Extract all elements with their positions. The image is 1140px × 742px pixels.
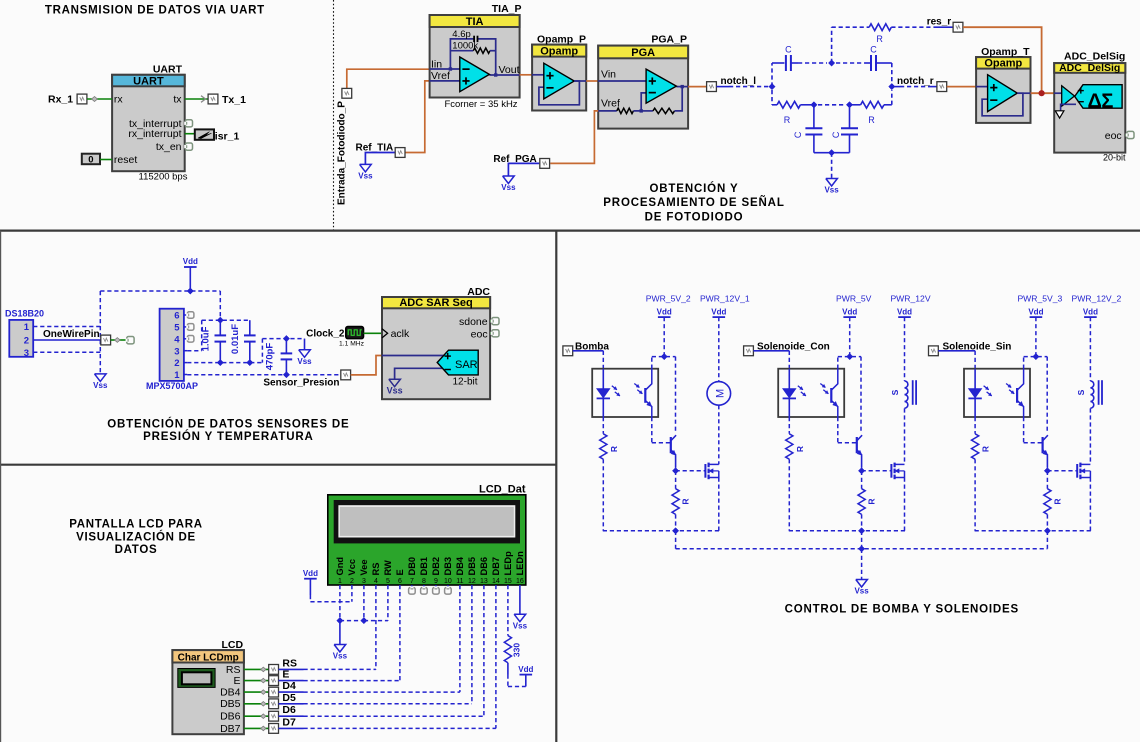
svg-text:rx_interrupt: rx_interrupt — [128, 128, 181, 140]
svg-text:Opamp: Opamp — [540, 45, 578, 57]
svg-text:9: 9 — [434, 578, 438, 585]
svg-text:ADC_DelSig: ADC_DelSig — [1064, 51, 1125, 63]
svg-text:DB7: DB7 — [491, 557, 501, 576]
svg-text:R: R — [981, 446, 991, 452]
svg-text:14: 14 — [492, 578, 500, 585]
svg-text:DB4: DB4 — [220, 687, 241, 699]
svg-text:PGA: PGA — [631, 47, 655, 59]
svg-text:13: 13 — [480, 578, 488, 585]
svg-text:Opamp_T: Opamp_T — [981, 46, 1030, 58]
svg-text:C: C — [793, 131, 803, 138]
svg-text:E: E — [282, 669, 289, 681]
svg-text:PRESIÓN Y TEMPERATURA: PRESIÓN Y TEMPERATURA — [143, 430, 314, 443]
svg-text:16: 16 — [516, 578, 524, 585]
svg-text:ADC SAR Seq: ADC SAR Seq — [399, 297, 472, 309]
svg-text:R: R — [876, 34, 883, 44]
svg-text:Vdd: Vdd — [1083, 307, 1098, 316]
svg-text:Sensor_Presion: Sensor_Presion — [263, 378, 339, 389]
svg-text:DB0: DB0 — [407, 557, 417, 576]
svg-text:3: 3 — [24, 348, 29, 359]
svg-text:2: 2 — [350, 578, 354, 585]
svg-text:PWR_5V: PWR_5V — [836, 294, 872, 304]
svg-text:R: R — [867, 498, 877, 504]
svg-text:5: 5 — [174, 323, 180, 334]
svg-text:4: 4 — [174, 334, 180, 345]
svg-text:R: R — [681, 498, 691, 504]
svg-text:UART: UART — [133, 76, 164, 88]
svg-text:Vss: Vss — [387, 385, 403, 395]
svg-text:3: 3 — [362, 578, 366, 585]
svg-text:E: E — [233, 675, 240, 687]
svg-text:Vss: Vss — [358, 172, 373, 181]
svg-text:SAR: SAR — [455, 359, 478, 371]
svg-text:D5: D5 — [282, 692, 296, 704]
svg-text:Vss: Vss — [513, 621, 528, 630]
svg-text:Vee: Vee — [359, 559, 369, 575]
svg-text:0.01uF: 0.01uF — [230, 324, 241, 354]
svg-text:Fcorner = 35 kHz: Fcorner = 35 kHz — [444, 99, 517, 110]
svg-text:Char LCDmp: Char LCDmp — [178, 652, 239, 663]
svg-text:isr_1: isr_1 — [215, 130, 240, 142]
svg-text:Clock_2: Clock_2 — [306, 329, 345, 340]
svg-text:Vdd: Vdd — [711, 307, 726, 316]
svg-text:1.1 MHz: 1.1 MHz — [339, 341, 365, 348]
svg-text:D4: D4 — [282, 680, 296, 692]
svg-text:Tx_1: Tx_1 — [222, 94, 246, 106]
svg-text:1: 1 — [174, 370, 180, 381]
svg-text:Opamp_P: Opamp_P — [537, 33, 586, 45]
svg-text:RS: RS — [371, 563, 381, 576]
svg-text:sdone: sdone — [459, 316, 488, 328]
svg-text:1000k: 1000k — [452, 41, 478, 52]
svg-text:S: S — [890, 389, 900, 395]
svg-text:res_r: res_r — [927, 16, 952, 27]
svg-text:330: 330 — [512, 643, 522, 657]
svg-text:Vdd: Vdd — [897, 307, 912, 316]
svg-text:ADC_DelSig: ADC_DelSig — [1059, 62, 1120, 74]
svg-text:D6: D6 — [282, 704, 296, 716]
svg-text:Vcc: Vcc — [347, 559, 357, 576]
svg-text:2: 2 — [24, 336, 29, 347]
svg-text:DATOS: DATOS — [115, 544, 158, 556]
svg-text:R: R — [795, 446, 805, 452]
svg-text:R: R — [868, 115, 875, 125]
svg-text:Vdd: Vdd — [183, 257, 198, 266]
svg-text:R: R — [1052, 498, 1062, 504]
svg-text:Vref: Vref — [431, 70, 450, 82]
svg-text:TIA_P: TIA_P — [492, 3, 522, 15]
svg-text:Vdd: Vdd — [518, 665, 533, 674]
svg-text:PGA_P: PGA_P — [651, 33, 687, 45]
svg-text:C: C — [870, 45, 877, 55]
svg-text:LEDn: LEDn — [515, 551, 525, 576]
svg-text:Opamp: Opamp — [984, 58, 1022, 70]
svg-text:PWR_5V_2: PWR_5V_2 — [646, 294, 691, 304]
svg-text:PWR_12V_2: PWR_12V_2 — [1072, 294, 1122, 304]
svg-text:CONTROL DE BOMBA Y SOLENOIDES: CONTROL DE BOMBA Y SOLENOIDES — [785, 603, 1019, 615]
svg-text:rx: rx — [114, 94, 123, 106]
svg-text:OBTENCIÓN DE DATOS SENSORES DE: OBTENCIÓN DE DATOS SENSORES DE — [107, 418, 349, 431]
svg-text:PROCESAMIENTO DE SEÑAL: PROCESAMIENTO DE SEÑAL — [603, 196, 784, 209]
svg-text:R: R — [609, 446, 619, 452]
svg-text:VISUALIZACIÓN DE: VISUALIZACIÓN DE — [76, 530, 196, 543]
svg-text:DB4: DB4 — [455, 556, 465, 575]
svg-text:TIA: TIA — [466, 16, 484, 28]
svg-text:7: 7 — [410, 578, 414, 585]
svg-text:notch_r: notch_r — [897, 76, 934, 87]
svg-text:R: R — [784, 115, 791, 125]
svg-text:0: 0 — [88, 154, 93, 165]
svg-text:OneWirePin: OneWirePin — [43, 329, 100, 340]
svg-text:S: S — [1076, 389, 1086, 395]
svg-text:ΔΣ: ΔΣ — [1088, 91, 1114, 113]
svg-text:LEDp: LEDp — [503, 551, 513, 576]
svg-text:DB7: DB7 — [220, 723, 241, 735]
svg-text:ADC: ADC — [467, 286, 490, 298]
svg-text:DB1: DB1 — [419, 557, 429, 576]
svg-text:C: C — [831, 131, 841, 138]
svg-text:20-bit: 20-bit — [1103, 152, 1126, 162]
svg-text:Rx_1: Rx_1 — [48, 93, 73, 105]
svg-text:1: 1 — [24, 322, 30, 333]
svg-text:notch_l: notch_l — [721, 76, 757, 87]
svg-text:reset: reset — [114, 154, 137, 166]
svg-text:OBTENCIÓN Y: OBTENCIÓN Y — [649, 182, 738, 195]
svg-text:11: 11 — [456, 578, 463, 585]
svg-text:1: 1 — [338, 578, 342, 585]
svg-text:DB5: DB5 — [467, 557, 477, 576]
svg-text:UART: UART — [153, 64, 183, 76]
svg-text:Vref: Vref — [601, 98, 620, 110]
svg-text:115200 bps: 115200 bps — [139, 171, 188, 182]
svg-text:MPX5700AP: MPX5700AP — [146, 381, 198, 391]
svg-text:DB6: DB6 — [220, 711, 241, 723]
svg-text:Vss: Vss — [854, 587, 869, 596]
svg-text:Vdd: Vdd — [303, 569, 318, 578]
svg-text:DS18B20: DS18B20 — [5, 308, 44, 318]
svg-text:8: 8 — [422, 578, 426, 585]
svg-text:Vss: Vss — [824, 186, 839, 195]
svg-text:eoc: eoc — [471, 329, 488, 341]
svg-text:PWR_5V_3: PWR_5V_3 — [1017, 294, 1062, 304]
svg-text:Vdd: Vdd — [657, 307, 672, 316]
svg-text:RS: RS — [226, 664, 241, 676]
svg-text:PWR_12V: PWR_12V — [890, 294, 930, 304]
svg-text:E: E — [395, 569, 405, 575]
svg-text:RS: RS — [282, 657, 297, 669]
svg-text:4: 4 — [374, 578, 378, 585]
svg-text:Vss: Vss — [501, 183, 516, 192]
svg-text:5: 5 — [386, 578, 390, 585]
svg-text:tx: tx — [173, 94, 182, 106]
svg-text:D7: D7 — [282, 716, 296, 728]
svg-text:Gnd: Gnd — [335, 557, 345, 576]
svg-text:12: 12 — [468, 578, 476, 585]
svg-text:C: C — [785, 45, 792, 55]
svg-text:Vss: Vss — [297, 357, 312, 366]
svg-text:Vss: Vss — [93, 381, 108, 390]
svg-text:Vdd: Vdd — [842, 307, 857, 316]
svg-text:4.6p: 4.6p — [452, 29, 471, 40]
svg-text:Vss: Vss — [333, 652, 348, 661]
svg-text:tx_en: tx_en — [156, 141, 182, 153]
svg-text:TRANSMISION DE DATOS VIA UART: TRANSMISION DE DATOS VIA UART — [45, 5, 265, 17]
svg-text:6: 6 — [174, 311, 179, 322]
svg-text:Vdd: Vdd — [1028, 307, 1043, 316]
svg-text:RW: RW — [383, 560, 393, 576]
svg-text:DE FOTODIODO: DE FOTODIODO — [645, 211, 744, 223]
svg-text:10: 10 — [444, 578, 452, 585]
svg-text:eoc: eoc — [1105, 130, 1122, 142]
svg-text:DB5: DB5 — [220, 698, 241, 710]
svg-text:470pF: 470pF — [265, 343, 276, 371]
svg-text:PWR_12V_1: PWR_12V_1 — [700, 294, 750, 304]
svg-text:aclk: aclk — [391, 328, 410, 340]
svg-text:12-bit: 12-bit — [452, 376, 477, 387]
svg-text:Vin: Vin — [601, 69, 616, 81]
svg-text:LCD_Dat: LCD_Dat — [479, 483, 526, 495]
svg-text:DB2: DB2 — [431, 557, 441, 576]
svg-text:M: M — [714, 389, 726, 398]
svg-text:PANTALLA LCD PARA: PANTALLA LCD PARA — [69, 519, 203, 531]
svg-text:2: 2 — [174, 358, 179, 369]
svg-text:15: 15 — [504, 578, 512, 585]
svg-text:Entrada_Fotodiodo_P: Entrada_Fotodiodo_P — [336, 101, 347, 205]
svg-text:3: 3 — [174, 346, 179, 357]
svg-text:6: 6 — [398, 578, 402, 585]
svg-text:DB6: DB6 — [479, 557, 489, 576]
svg-text:DB3: DB3 — [443, 557, 453, 576]
svg-text:1.0uF: 1.0uF — [200, 326, 211, 351]
